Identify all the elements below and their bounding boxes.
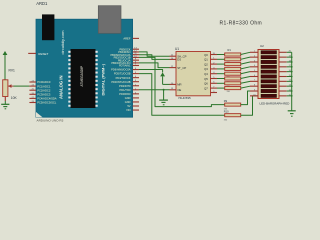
svg-text:ARD1: ARD1 bbox=[36, 1, 48, 6]
pin bargraph anode 4 bbox=[250, 66, 258, 68]
wire Arduino GND pin to U1 OE bbox=[139, 89, 170, 91]
pin digital 12 bbox=[133, 51, 139, 53]
USB connector bbox=[98, 6, 121, 34]
svg-text:PD5/T1/OC0B: PD5/T1/OC0B bbox=[114, 72, 131, 76]
resistor R1 330 bbox=[225, 53, 241, 56]
pin bargraph cathode 16 bbox=[279, 71, 287, 73]
wire R10 to bargraph pin 10 bbox=[241, 96, 258, 115]
resistor R8 330 bbox=[225, 87, 241, 90]
pin bargraph cathode 12 bbox=[279, 90, 287, 92]
svg-text:Q4: Q4 bbox=[204, 72, 208, 76]
junction node bus 2 bbox=[291, 61, 293, 63]
LED bar 3 bbox=[261, 60, 277, 63]
pin bargraph cathode 19 bbox=[279, 56, 287, 58]
ATMEGA328P chip U3 bbox=[68, 49, 97, 108]
resistor R9 330 bbox=[225, 103, 241, 106]
wire cathode 20 to ground bus bbox=[287, 51, 292, 53]
svg-text:28: 28 bbox=[32, 101, 34, 103]
svg-text:PC4/ADC4/SDA: PC4/ADC4/SDA bbox=[37, 97, 57, 101]
svg-text:Q7: Q7 bbox=[204, 86, 208, 90]
svg-text:AREF: AREF bbox=[123, 37, 131, 41]
pin U1 Q5 (5) bbox=[211, 78, 218, 80]
LED bar 1 bbox=[261, 51, 277, 54]
svg-text:26: 26 bbox=[32, 93, 34, 95]
pin digital 9 bbox=[133, 59, 139, 61]
wire cathode ground bus bbox=[291, 52, 293, 111]
pin digital 10 bbox=[133, 56, 139, 58]
pin bargraph cathode 15 bbox=[279, 76, 287, 78]
pin digital 4 bbox=[133, 77, 139, 79]
svg-text:PD0/RXD: PD0/RXD bbox=[119, 92, 130, 96]
pin digital 0 bbox=[133, 93, 139, 95]
wire cathode 12 to ground bus bbox=[287, 90, 292, 92]
svg-text:R9: R9 bbox=[224, 99, 228, 103]
svg-text:27: 27 bbox=[32, 97, 34, 99]
resistor R4 330 bbox=[225, 67, 241, 70]
LED bar 8 bbox=[261, 85, 277, 88]
svg-text:ST_CP: ST_CP bbox=[177, 66, 186, 70]
pin analog A3 bbox=[29, 93, 36, 95]
svg-text:24: 24 bbox=[32, 85, 34, 87]
pin U1 Q7 (7) bbox=[211, 87, 218, 89]
Arduino Uno ARD1 board bbox=[36, 19, 133, 117]
op IC U1 74HC595 shift register bbox=[176, 52, 211, 96]
svg-text:PC2/ADC2: PC2/ADC2 bbox=[37, 88, 51, 92]
junction node bus 6 bbox=[291, 80, 293, 82]
LED bar 5 bbox=[261, 70, 277, 73]
svg-text:PC1/ADC1: PC1/ADC1 bbox=[37, 84, 51, 88]
pin digital GND bbox=[133, 97, 139, 99]
pin U1 SH_CP (11) bbox=[170, 55, 177, 57]
svg-text:Q2: Q2 bbox=[204, 62, 208, 66]
junction node bus 8 bbox=[291, 90, 293, 92]
pin bargraph cathode 13 bbox=[279, 85, 287, 87]
svg-text:23: 23 bbox=[32, 81, 34, 83]
wire D7 to power node bbox=[139, 70, 163, 73]
svg-text:PD4/T0/XCK: PD4/T0/XCK bbox=[116, 76, 131, 80]
pin bargraph cathode 20 bbox=[279, 51, 287, 53]
pin digital 2 bbox=[133, 85, 139, 87]
pin U1 Q7' (9) bbox=[211, 92, 218, 94]
pin analog A5 bbox=[29, 102, 36, 104]
svg-text:10K: 10K bbox=[11, 96, 18, 100]
wire R8 to bargraph pin 8 bbox=[241, 86, 250, 88]
wire R7 to bargraph pin 7 bbox=[241, 81, 250, 83]
svg-text:MR: MR bbox=[177, 83, 181, 87]
wire U1 Q2 to R3 bbox=[217, 63, 225, 65]
pin analog A0 bbox=[29, 81, 36, 83]
wire D10 to U1 DS bbox=[139, 55, 170, 60]
pin U1 MR (10) bbox=[170, 83, 177, 85]
resistor R5 330 bbox=[225, 72, 241, 75]
svg-text:PD2/INT0: PD2/INT0 bbox=[119, 84, 131, 88]
wire D11 to U1 SH_CP bbox=[139, 52, 170, 56]
wire U1 Q0 to R1 bbox=[217, 54, 225, 56]
svg-text:GND: GND bbox=[125, 100, 131, 104]
wire R4 to bargraph pin 4 bbox=[241, 67, 250, 69]
pin U1 Q3 (3) bbox=[211, 68, 218, 70]
wire cathode 17 to ground bus bbox=[287, 66, 292, 68]
pin digital 8 bbox=[133, 62, 139, 64]
pin U1 Q4 (4) bbox=[211, 73, 218, 75]
pin bargraph anode 7 bbox=[250, 80, 258, 82]
pin bargraph anode 9 bbox=[250, 90, 258, 92]
LED bar 6 bbox=[261, 75, 277, 78]
pin digital 7 bbox=[133, 65, 139, 67]
wire R6 to bargraph pin 6 bbox=[241, 77, 250, 79]
wire power to U1 MR bbox=[163, 83, 170, 85]
DC power jack bbox=[42, 14, 54, 40]
wire U1 Q1 to R2 bbox=[217, 58, 225, 60]
LED bar 9 bbox=[261, 89, 277, 92]
junction node bus 4 bbox=[291, 71, 293, 73]
junction node bus 9 bbox=[291, 95, 293, 97]
svg-text:74HC595: 74HC595 bbox=[178, 96, 191, 100]
svg-text:R1: R1 bbox=[228, 48, 232, 52]
wire cathode 11 to ground bus bbox=[287, 95, 292, 97]
svg-text:Q0: Q0 bbox=[204, 53, 208, 57]
wire D8 to U1 ST_CP bbox=[139, 63, 170, 68]
ground for RV1 bbox=[1, 103, 9, 105]
svg-text:R10: R10 bbox=[224, 110, 229, 114]
pin U1 Q6 (6) bbox=[211, 82, 218, 84]
svg-text:PD3/INT1/OC2B: PD3/INT1/OC2B bbox=[111, 80, 130, 84]
resistor R3 330 bbox=[225, 63, 241, 66]
wire R9 to bargraph pin 9 bbox=[241, 91, 258, 105]
svg-text:PD1/TXD: PD1/TXD bbox=[120, 88, 131, 92]
junction node bus 1 bbox=[291, 56, 293, 58]
wire U1 Q3 to R4 bbox=[217, 68, 225, 70]
pin digital 6 bbox=[133, 69, 139, 71]
pin U1 ST_CP (12) bbox=[170, 67, 177, 69]
wire U1 Q6 to R7 bbox=[217, 82, 225, 84]
svg-text:25: 25 bbox=[32, 89, 34, 91]
resistor R2 330 bbox=[225, 58, 241, 61]
wire Arduino D9 to R9 bbox=[139, 57, 225, 106]
power +V terminal for RV1 bbox=[3, 51, 8, 55]
pin digital 11 bbox=[133, 54, 139, 56]
pin bargraph anode 2 bbox=[250, 56, 258, 58]
junction node bus 7 bbox=[291, 85, 293, 87]
potentiometer RV1 bbox=[3, 80, 14, 97]
pin bargraph cathode 18 bbox=[279, 61, 287, 63]
resistor R6 330 bbox=[225, 77, 241, 80]
svg-text:VIN: VIN bbox=[126, 108, 130, 112]
wire U1 Q4 to R5 bbox=[217, 73, 225, 75]
pin bargraph cathode 11 bbox=[279, 95, 287, 97]
svg-text:Q6: Q6 bbox=[204, 82, 208, 86]
resistor R7 330 bbox=[225, 82, 241, 85]
LED bar 7 bbox=[261, 80, 277, 83]
svg-text:DS: DS bbox=[177, 58, 181, 62]
pin bargraph cathode 14 bbox=[279, 80, 287, 82]
svg-text:U1: U1 bbox=[175, 47, 179, 51]
svg-text:DIGITAL (PWM~): DIGITAL (PWM~) bbox=[101, 63, 106, 95]
svg-text:PD6/AIN0/OC0A: PD6/AIN0/OC0A bbox=[111, 68, 131, 72]
svg-text:U2: U2 bbox=[260, 44, 264, 48]
pin digital 13 bbox=[133, 48, 139, 50]
wire R5 to bargraph pin 5 bbox=[241, 72, 250, 74]
pin bargraph anode 8 bbox=[250, 85, 258, 87]
pin U1 Q2 (2) bbox=[211, 63, 218, 65]
wire cathode 13 to ground bus bbox=[287, 85, 292, 87]
wire R1 to bargraph pin 1 bbox=[241, 52, 250, 54]
pin bargraph anode 1 bbox=[250, 51, 258, 53]
svg-text:ARDUINO UNO R3: ARDUINO UNO R3 bbox=[37, 119, 64, 123]
pin analog A4 bbox=[29, 97, 36, 99]
svg-text:OE: OE bbox=[177, 88, 181, 92]
wire R3 to bargraph pin 3 bbox=[241, 62, 250, 64]
LED bargraph U2 body bbox=[258, 50, 279, 99]
LED bar 4 bbox=[261, 65, 277, 68]
pin U1 OE (13) bbox=[170, 89, 177, 91]
pin bargraph anode 10 bbox=[250, 95, 258, 97]
svg-text:circuitdiy.com: circuitdiy.com bbox=[60, 30, 65, 55]
pin U1 DS (14) bbox=[170, 58, 177, 60]
wire Arduino D6 to R10 bbox=[139, 74, 225, 116]
ground below U1 OE wire bbox=[163, 90, 165, 100]
pin digital VIN bbox=[133, 109, 139, 111]
svg-text:Q3: Q3 bbox=[204, 67, 208, 71]
resistor R10 330 bbox=[225, 114, 241, 117]
pin U1 Q0 (15) bbox=[211, 54, 218, 56]
pin digital GND bbox=[133, 101, 139, 103]
pin digital 3 bbox=[133, 81, 139, 83]
pin analog A2 bbox=[29, 89, 36, 91]
junction node bus 5 bbox=[291, 76, 293, 78]
wire U1 Q5 to R6 bbox=[217, 78, 225, 80]
wire cathode 14 to ground bus bbox=[287, 80, 292, 82]
svg-text:PC5/ADC5/SCL: PC5/ADC5/SCL bbox=[37, 101, 57, 105]
svg-text:GND: GND bbox=[125, 96, 131, 100]
junction node bus 3 bbox=[291, 66, 293, 68]
svg-text:PC0/ADC0: PC0/ADC0 bbox=[37, 80, 51, 84]
pin bargraph cathode 17 bbox=[279, 66, 287, 68]
wire cathode 15 to ground bus bbox=[287, 76, 292, 78]
svg-text:PC3/ADC3: PC3/ADC3 bbox=[37, 93, 51, 97]
wire RV1 bottom to ground bbox=[4, 97, 6, 102]
svg-text:RESET: RESET bbox=[38, 52, 48, 56]
wire U1 Q7 to R8 bbox=[217, 87, 225, 89]
pin analog A1 bbox=[29, 85, 36, 87]
wire cathode 16 to ground bus bbox=[287, 71, 292, 73]
svg-text:RV1: RV1 bbox=[9, 69, 16, 73]
ground for bargraph bbox=[288, 110, 296, 112]
wire RV1 wiper to Arduino analog pin bbox=[14, 85, 30, 87]
pin digital 5 bbox=[133, 73, 139, 75]
wire R2 to bargraph pin 2 bbox=[241, 57, 250, 59]
pin bargraph anode 3 bbox=[250, 61, 258, 63]
pin bargraph anode 6 bbox=[250, 76, 258, 78]
svg-text:5V: 5V bbox=[127, 104, 130, 108]
junction node OE/ground bbox=[163, 89, 165, 91]
pin bargraph anode 5 bbox=[250, 71, 258, 73]
pin RESET bbox=[28, 52, 36, 54]
svg-text:R1-R8=330 Ohm: R1-R8=330 Ohm bbox=[220, 20, 263, 26]
svg-text:Q1: Q1 bbox=[204, 58, 208, 62]
pin digital 5V bbox=[133, 105, 139, 107]
board bevel corner bbox=[36, 112, 43, 117]
wire cathode 19 to ground bus bbox=[287, 56, 292, 58]
svg-text:LED-BARGRAPH-RED: LED-BARGRAPH-RED bbox=[260, 101, 290, 105]
LED bar 2 bbox=[261, 55, 277, 58]
svg-text:Q5: Q5 bbox=[204, 77, 208, 81]
pin digital 1 bbox=[133, 89, 139, 91]
svg-text:ATMEGA328P: ATMEGA328P bbox=[80, 66, 84, 87]
svg-text:PD7/AIN1: PD7/AIN1 bbox=[119, 64, 131, 68]
pin U1 Q1 (1) bbox=[211, 58, 218, 60]
power +5V terminal for U1 MR bbox=[160, 72, 165, 76]
LED bar 10 bbox=[261, 94, 277, 97]
pin AREF bbox=[133, 37, 139, 39]
svg-text:ANALOG IN: ANALOG IN bbox=[59, 76, 64, 100]
wire cathode 18 to ground bus bbox=[287, 61, 292, 63]
